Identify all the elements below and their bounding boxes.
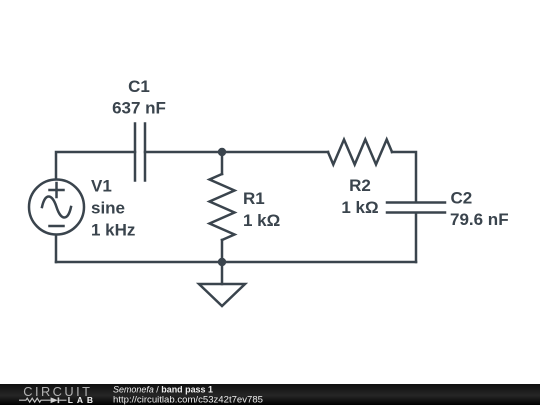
wire from node B to ground: [221, 262, 224, 284]
logo diode: [51, 397, 67, 403]
R2 value label: [341, 198, 378, 217]
svg-text:1 kΩ: 1 kΩ: [243, 211, 280, 230]
logo word LAB: [68, 395, 97, 405]
V1 type label: [91, 199, 125, 218]
svg-text:V1: V1: [91, 177, 112, 196]
svg-text:C2: C2: [451, 189, 473, 208]
svg-text:http://circuitlab.com/c53z42t7: http://circuitlab.com/c53z42t7ev785: [113, 395, 263, 405]
node B junction dot: [218, 258, 226, 266]
footer title line: [113, 385, 214, 396]
ground: [199, 284, 245, 306]
svg-text:C1: C1: [128, 77, 150, 96]
svg-text:1 kHz: 1 kHz: [91, 221, 135, 240]
C2 designator label: [451, 189, 473, 208]
svg-text:637 nF: 637 nF: [112, 99, 166, 118]
V1 designator label: [91, 177, 112, 196]
resistor R1: [210, 174, 235, 240]
C2 value label: [450, 210, 509, 229]
footer url line: [113, 395, 263, 405]
wire from node A to R2: [222, 151, 328, 154]
wire from V1 top to C1 left plate: [56, 152, 135, 179]
svg-text:R1: R1: [243, 189, 265, 208]
resistor R2: [328, 140, 392, 165]
V1 value label: [91, 221, 135, 240]
R1 value label: [243, 211, 280, 230]
svg-text:1 kΩ: 1 kΩ: [341, 198, 378, 217]
wire from node A down to R1: [221, 152, 224, 174]
logo wire with resistor squiggle: [19, 398, 51, 402]
wire from V1 bottom to bottom rail: [55, 236, 58, 263]
node A junction dot: [218, 148, 226, 156]
R1 designator label: [243, 189, 265, 208]
wire from R1 down to node B: [221, 240, 224, 262]
svg-text:sine: sine: [91, 199, 125, 218]
C1 designator label: [128, 77, 150, 96]
wire from C2 bottom plate down to bottom rail: [415, 213, 418, 262]
voltage source V1: [29, 180, 84, 235]
capacitor C2: [387, 203, 445, 213]
R2 designator label: [349, 176, 371, 195]
wire from C1 right plate to node A: [145, 151, 222, 154]
wire from R2 to C2 top plate: [392, 152, 416, 202]
svg-text:LAB: LAB: [68, 395, 97, 405]
C1 value label: [112, 99, 166, 118]
footer bar: [0, 384, 540, 405]
wire bottom rail left: node B to V1: [56, 261, 222, 264]
svg-text:79.6 nF: 79.6 nF: [450, 210, 509, 229]
svg-text:R2: R2: [349, 176, 371, 195]
logo word CIRCUIT: [23, 384, 92, 399]
wire bottom rail right: C2 to node B: [222, 261, 416, 264]
capacitor C1: [135, 124, 145, 181]
